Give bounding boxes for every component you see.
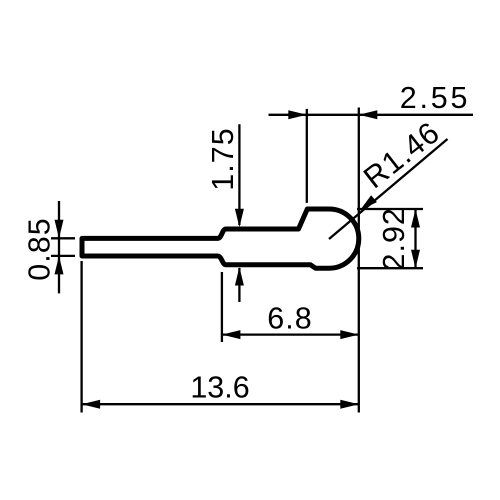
dimension 0.85 bottom tick	[51, 255, 75, 257]
dimension 6.8 dimension line	[222, 333, 359, 335]
dimension 0.85 dimension line	[58, 201, 60, 293]
svg-text:0.85: 0.85	[23, 217, 57, 280]
dimension 13.6 right arrow	[340, 400, 359, 409]
right vertical extension line (shared by 2.55, 6.8, 13.6)	[358, 108, 360, 413]
radius R1.46 arrow	[360, 195, 377, 210]
dimension 6.8 left arrow	[222, 330, 241, 339]
dimension 13.6 left arrow	[82, 400, 101, 409]
dimension 0.85 text label	[23, 217, 57, 280]
dimension 6.8 left extension line	[221, 272, 223, 342]
dimension 13.6 dimension line	[82, 403, 359, 405]
dimension 13.6 text label	[190, 370, 249, 404]
dimension 6.8 text label	[267, 302, 312, 336]
svg-text:6.8: 6.8	[267, 302, 312, 336]
dimension 2.55 right arrow	[359, 110, 378, 119]
dimension 2.92 top extension line	[357, 208, 423, 210]
dimension 1.75 text label	[206, 127, 240, 190]
dimension 2.92 dimension line	[414, 209, 416, 268]
dimension 6.8 right arrow	[340, 330, 359, 339]
dimension 1.75 upper dimension line	[238, 124, 240, 225]
dimension 1.75 down arrow	[235, 209, 244, 228]
dimension 1.75 lower dimension line	[238, 268, 240, 302]
dimension 2.92 bottom extension line	[357, 267, 423, 269]
dimension 2.55 left extension line	[306, 109, 308, 203]
svg-text:1.75: 1.75	[206, 127, 240, 190]
dimension 2.55 text label	[400, 81, 471, 115]
profile outline	[82, 209, 359, 268]
dimension 1.75 up arrow	[235, 267, 244, 286]
radius R1.46 leader line	[329, 139, 448, 239]
dimension 0.85 up arrow	[55, 256, 64, 275]
dimension 2.92 up arrow	[411, 209, 420, 228]
svg-text:2.92: 2.92	[377, 207, 411, 270]
dimension 0.85 top tick	[51, 237, 75, 239]
dimension 13.6 left extension line	[80, 261, 82, 413]
dimension 0.85 down arrow	[55, 220, 64, 239]
radius R1.46 text label	[357, 115, 446, 195]
dimension 2.92 text label	[377, 207, 411, 270]
dimension 2.55 dimension line	[269, 114, 474, 116]
svg-text:13.6: 13.6	[190, 370, 249, 404]
dimension 2.55 left arrow	[288, 110, 307, 119]
dimension 2.92 down arrow	[411, 250, 420, 269]
svg-text:2.55: 2.55	[400, 81, 471, 115]
